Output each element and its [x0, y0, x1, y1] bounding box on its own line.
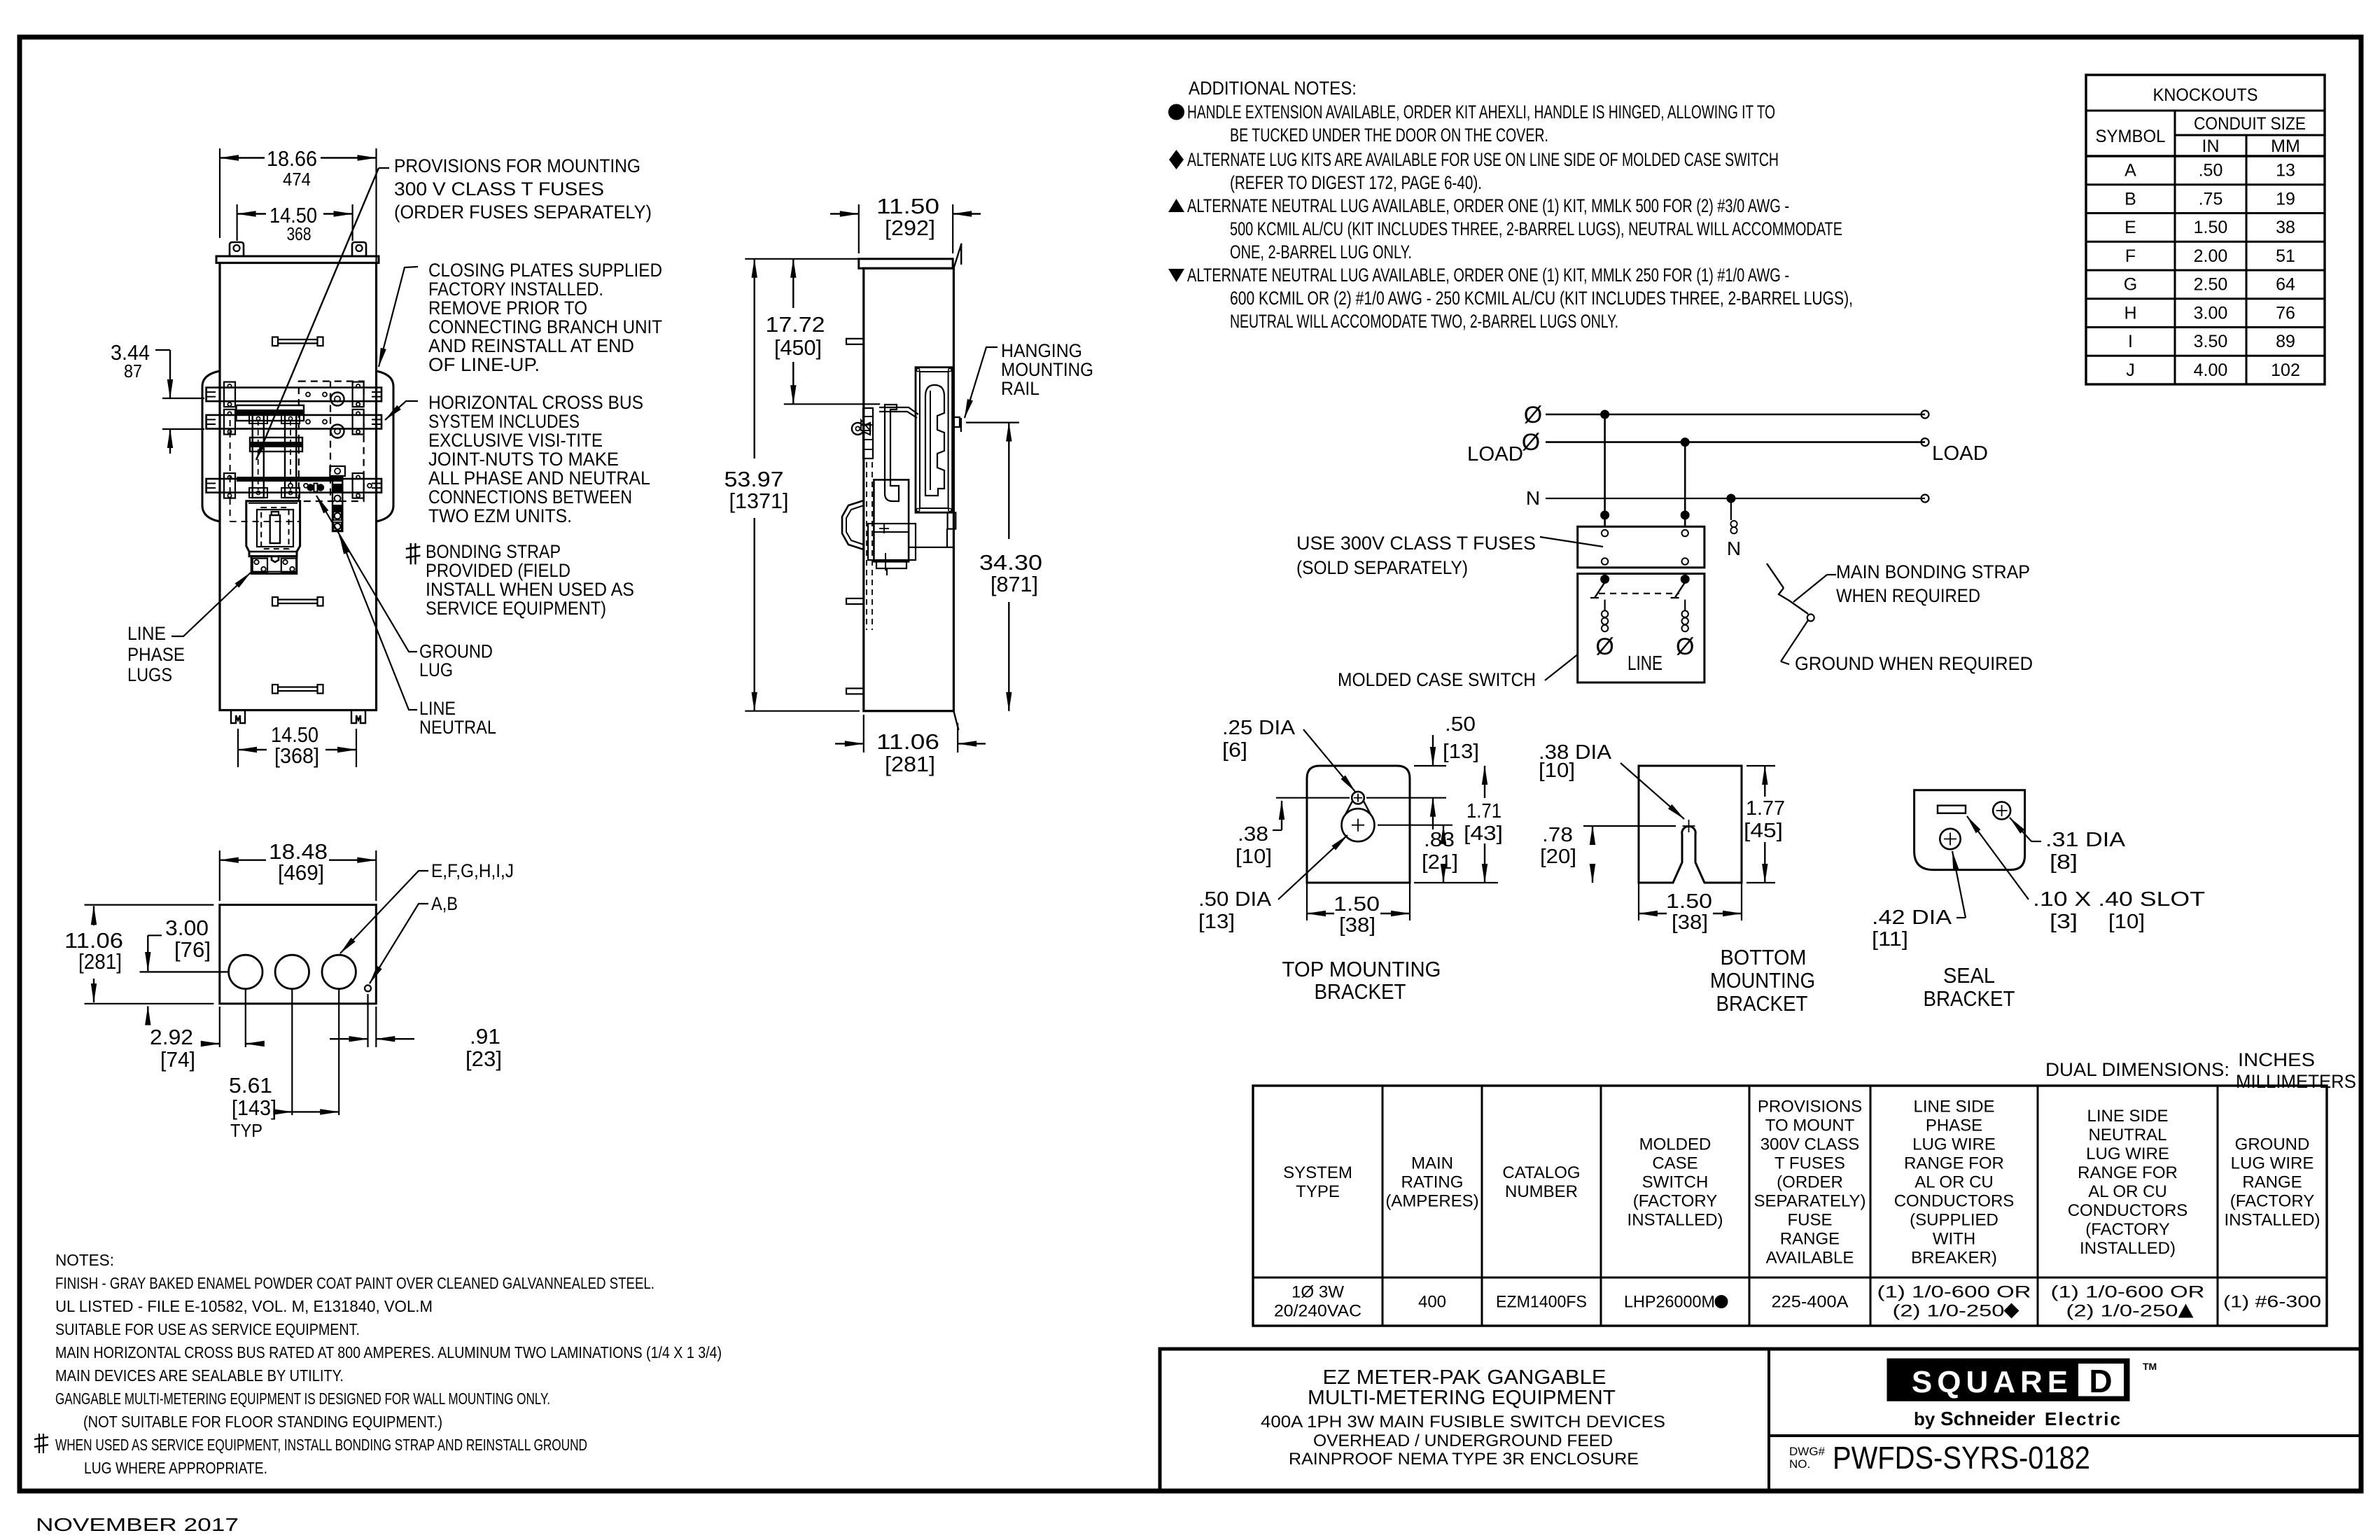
table header system type [1283, 1163, 1352, 1201]
table header main rating [1385, 1154, 1478, 1211]
svg-text:(REFER TO DIGEST 172, PAGE: (REFER TO DIGEST 172, PAGE 6-40). [1230, 172, 1482, 193]
dim 3.00 / [76] [140, 916, 230, 972]
svg-text:[38]: [38] [1672, 911, 1708, 934]
svg-text:HANDLE EXTENSION AVAILABLE,: HANDLE EXTENSION AVAILABLE, ORDER KIT AH… [1187, 101, 1775, 122]
svg-text:1.50: 1.50 [2194, 218, 2228, 237]
label load right [1932, 442, 1988, 465]
dim .91 / [23] [330, 994, 502, 1071]
svg-text:MAIN HORIZONTAL CROSS BUS: MAIN HORIZONTAL CROSS BUS RATED AT 800 A… [55, 1343, 722, 1361]
additional note alternate neutral lug 500 [1168, 195, 1842, 262]
svg-text:N: N [1526, 487, 1540, 509]
svg-text:LUGS: LUGS [127, 664, 172, 685]
additional notes heading [1189, 78, 1357, 99]
bottom view plate [220, 905, 377, 1004]
svg-text:CLOSING PLATES SUPPLIED: CLOSING PLATES SUPPLIED [428, 260, 662, 281]
svg-text:.50: .50 [2199, 161, 2223, 181]
svg-text:MULTI-METERING EQUIPMENT: MULTI-METERING EQUIPMENT [1308, 1387, 1616, 1409]
svg-text:(SOLD SEPARATELY): (SOLD SEPARATELY) [1296, 557, 1468, 578]
svg-text:.31 DIA: .31 DIA [2045, 829, 2126, 851]
svg-text:AL OR CU: AL OR CU [1914, 1173, 1993, 1192]
svg-text:B: B [2124, 189, 2136, 209]
svg-text:TWO EZM UNITS.: TWO EZM UNITS. [428, 505, 572, 526]
molded case switch front [246, 501, 300, 556]
svg-text:51: 51 [2276, 246, 2295, 266]
svg-text:11.06: 11.06 [876, 729, 939, 754]
label load left [1467, 443, 1523, 465]
seal bracket plate [1914, 790, 2025, 870]
svg-text:38: 38 [2276, 218, 2295, 237]
svg-text:(2) 1/0-250: (2) 1/0-250 [2066, 1302, 2178, 1321]
svg-text:2.50: 2.50 [2194, 275, 2228, 295]
svg-text:(ORDER FUSES SEPARATELY): (ORDER FUSES SEPARATELY) [394, 202, 652, 223]
upper bus connection plate [237, 405, 304, 421]
dim .25 DIA [6] [1222, 717, 1355, 792]
svg-text:(NOT SUITABLE FOR FLOOR ST: (NOT SUITABLE FOR FLOOR STANDING EQUIPME… [83, 1413, 442, 1431]
dim 11.06 / [281] side [835, 715, 986, 776]
svg-text:(FACTORY: (FACTORY [1633, 1192, 1717, 1211]
svg-text:LUG WHERE APPROPRIATE.: LUG WHERE APPROPRIATE. [84, 1459, 267, 1477]
dim 18.48 / [469] [220, 839, 377, 901]
top bracket keyhole [1342, 792, 1375, 841]
wire drop phase 2 [1681, 442, 1689, 527]
main table grid [1253, 1086, 2327, 1326]
table row system type [1274, 1283, 1361, 1321]
bottom view knockout E-J holes [229, 955, 356, 988]
top mounting bracket plate [1307, 766, 1410, 883]
svg-text:[43]: [43] [1464, 822, 1503, 845]
svg-text:CONNECTING BRANCH UNIT: CONNECTING BRANCH UNIT [428, 316, 662, 337]
side view dashed wire [867, 462, 872, 630]
svg-text:[1371]: [1371] [729, 489, 789, 513]
side view left hinge pins [846, 339, 864, 694]
svg-text:CONDUCTORS: CONDUCTORS [2068, 1201, 2188, 1220]
svg-text:(FACTORY: (FACTORY [2230, 1192, 2314, 1211]
callout line phase lugs [127, 573, 251, 685]
svg-text:CONNECTIONS BETWEEN: CONNECTIONS BETWEEN [428, 486, 632, 507]
dim .50 [13] top bracket [1366, 713, 1479, 829]
svg-text:18.66: 18.66 [267, 146, 317, 171]
svg-text:HANGING: HANGING [1001, 340, 1082, 361]
knockouts table text [2096, 85, 2306, 380]
seal bracket hole large [1940, 829, 1960, 849]
wire drop neutral stub [1727, 498, 1741, 559]
svg-text:[143]: [143] [232, 1095, 276, 1120]
svg-text:Ø: Ø [1676, 633, 1694, 660]
svg-text:I: I [2128, 332, 2133, 351]
svg-text:(SUPPLIED: (SUPPLIED [1910, 1211, 1998, 1230]
svg-text:PWFDS-SYRS-0182: PWFDS-SYRS-0182 [1833, 1440, 2090, 1476]
svg-text:TOP MOUNTING: TOP MOUNTING [1282, 957, 1441, 981]
bus right end plates [353, 382, 364, 498]
svg-text:GROUND: GROUND [2235, 1135, 2310, 1154]
callout closing plates [379, 260, 662, 375]
dim 34.30 / [871] [966, 423, 1042, 711]
dim 2.92 / [74] [148, 990, 259, 1072]
svg-text:.50 DIA: .50 DIA [1198, 888, 1272, 911]
by schneider electric [1914, 1408, 2122, 1429]
svg-text:TO MOUNT: TO MOUNT [1765, 1116, 1855, 1135]
svg-text:.78: .78 [1542, 824, 1573, 846]
svg-text:3.00: 3.00 [2194, 303, 2228, 323]
svg-text:F: F [2125, 246, 2136, 266]
svg-text:1.77: 1.77 [1746, 797, 1785, 820]
line neutral lug [304, 481, 326, 494]
svg-text:Ø: Ø [1595, 633, 1613, 660]
dim .38 DIA [10] bottom bracket [1539, 741, 1684, 819]
switch poles [1590, 582, 1694, 675]
svg-text:FINISH - GRAY BAKED ENAMEL: FINISH - GRAY BAKED ENAMEL POWDER COAT P… [55, 1274, 654, 1292]
callout line neutral [339, 535, 496, 738]
svg-text:[368]: [368] [274, 743, 319, 768]
svg-text:ALTERNATE NEUTRAL LUG AVAIL: ALTERNATE NEUTRAL LUG AVAILABLE, ORDER O… [1187, 195, 1789, 216]
svg-text:CONDUCTORS: CONDUCTORS [1894, 1192, 2015, 1211]
main bus heavy segment upper [237, 409, 304, 415]
svg-text:[469]: [469] [278, 860, 324, 885]
svg-text:NOVEMBER 2017: NOVEMBER 2017 [36, 1514, 239, 1535]
side view switch mechanism [868, 479, 916, 570]
svg-text:[13]: [13] [1198, 911, 1235, 933]
svg-text:CASE: CASE [1652, 1154, 1697, 1173]
svg-text:[10]: [10] [1539, 759, 1575, 782]
front view right gang flange [377, 371, 394, 521]
dim 17.72 / [450] [766, 259, 881, 405]
svg-text:RATING: RATING [1401, 1173, 1464, 1192]
svg-text:MAIN DEVICES ARE SEALABLE: MAIN DEVICES ARE SEALABLE BY UTILITY. [55, 1366, 344, 1385]
svg-text:368: 368 [287, 223, 311, 244]
svg-text:EZ METER-PAK GANGABLE: EZ METER-PAK GANGABLE [1323, 1366, 1606, 1389]
svg-text:300V CLASS: 300V CLASS [1760, 1135, 1859, 1154]
dim 1.71 [43] [1414, 766, 1503, 883]
dim .31 DIA [8] [2010, 818, 2126, 874]
svg-text:3.50: 3.50 [2194, 332, 2228, 351]
svg-text:SERVICE EQUIPMENT): SERVICE EQUIPMENT) [426, 598, 606, 619]
side view door clamp loop [852, 423, 870, 435]
dim .42 DIA [11] [1872, 851, 1966, 951]
svg-text:TYPE: TYPE [1296, 1182, 1340, 1201]
svg-text:SYMBOL: SYMBOL [2096, 127, 2166, 146]
svg-text:1.71: 1.71 [1466, 800, 1501, 822]
svg-text:INSTALL WHEN USED AS: INSTALL WHEN USED AS [426, 579, 634, 600]
dim 1.50 [38] bottom bracket [1639, 883, 1742, 934]
wire drop phase 1 [1601, 414, 1609, 526]
table header provisions fuses [1753, 1098, 1865, 1268]
svg-text:FACTORY INSTALLED.: FACTORY INSTALLED. [428, 279, 603, 300]
svg-text:[6]: [6] [1222, 739, 1247, 762]
side view rail lip [953, 417, 960, 427]
svg-text:3.00: 3.00 [165, 916, 209, 940]
svg-text:.83: .83 [1424, 829, 1455, 851]
svg-text:PHASE: PHASE [1926, 1116, 1982, 1135]
svg-text:JOINT-NUTS TO MAKE: JOINT-NUTS TO MAKE [428, 449, 619, 470]
svg-text:76: 76 [2276, 303, 2295, 323]
dim 53.97 / [1371] [724, 259, 860, 711]
svg-text:Electric: Electric [2045, 1408, 2122, 1429]
table row catalog number [1496, 1293, 1587, 1312]
dim 1.77 [45] [1744, 766, 1785, 883]
svg-text:PHASE: PHASE [127, 644, 185, 665]
svg-text:102: 102 [2271, 360, 2300, 380]
svg-text:.42 DIA: .42 DIA [1872, 906, 1952, 929]
svg-text:89: 89 [2276, 332, 2295, 351]
svg-text:11.50: 11.50 [876, 194, 939, 218]
svg-text:[281]: [281] [78, 949, 122, 974]
dwg number [1789, 1440, 2090, 1476]
svg-text:ALTERNATE LUG KITS ARE AVA: ALTERNATE LUG KITS ARE AVAILABLE FOR USE… [1187, 149, 1779, 170]
additional note alternate neutral lug 250 [1168, 265, 1853, 332]
dim .38 [10] top bracket [1235, 798, 1350, 868]
side view hinge block [861, 408, 873, 458]
svg-text:SEPARATELY): SEPARATELY) [1753, 1192, 1865, 1211]
svg-text:[281]: [281] [885, 752, 935, 776]
svg-text:by: by [1914, 1408, 1935, 1429]
svg-text:13: 13 [2276, 161, 2295, 181]
label main bonding strap [1793, 561, 2030, 606]
svg-text:E,F,G,H,I,J: E,F,G,H,I,J [431, 860, 514, 881]
svg-text:.25 DIA: .25 DIA [1222, 717, 1296, 739]
svg-text:Ø: Ø [1524, 402, 1542, 428]
caption top mounting bracket [1282, 957, 1441, 1004]
svg-text:SYSTEM INCLUDES: SYSTEM INCLUDES [428, 411, 580, 432]
svg-text:SQUARE: SQUARE [1912, 1365, 2073, 1399]
callout ground lug [316, 496, 493, 680]
svg-text:[3]: [3] [2050, 911, 2078, 933]
callout bonding strap [426, 541, 634, 619]
svg-text:OVERHEAD / UNDERGROUND FEED: OVERHEAD / UNDERGROUND FEED [1313, 1431, 1613, 1450]
svg-text:PROVIDED (FIELD: PROVIDED (FIELD [426, 560, 570, 581]
svg-text:LUG WIRE: LUG WIRE [2086, 1144, 2169, 1163]
bus riser straps [249, 412, 300, 498]
wire neutral [1526, 487, 1929, 509]
door handle bar 1 [272, 337, 323, 346]
title block frame [1160, 1349, 2361, 1491]
dim 1.50 [38] top bracket [1307, 883, 1410, 937]
svg-text:474: 474 [283, 169, 311, 190]
svg-text:BRACKET: BRACKET [1716, 991, 1808, 1016]
svg-text:AL OR CU: AL OR CU [2088, 1182, 2166, 1201]
square d logo [1888, 1359, 2157, 1400]
svg-text:MOUNTING: MOUNTING [1001, 359, 1093, 380]
callout hanging mounting rail [965, 340, 1093, 418]
svg-text:[871]: [871] [990, 572, 1038, 596]
lower bus connection plate [250, 437, 302, 451]
svg-text:(2) 1/0-250: (2) 1/0-250 [1893, 1302, 2005, 1321]
notes block [55, 1251, 722, 1477]
door handle bar 2 [272, 597, 323, 606]
svg-text:RANGE FOR: RANGE FOR [1904, 1154, 2004, 1173]
svg-text:GANGABLE MULTI-METERING EQUI: GANGABLE MULTI-METERING EQUIPMENT IS DES… [55, 1389, 550, 1408]
side view hanging rail box [916, 367, 953, 513]
svg-text:TM: TM [2143, 1361, 2157, 1372]
visi-tite joint nuts [331, 393, 344, 438]
svg-text:PROVISIONS FOR MOUNTING: PROVISIONS FOR MOUNTING [394, 155, 640, 176]
svg-text:UL LISTED - FILE E-10582,: UL LISTED - FILE E-10582, VOL. M, E13184… [55, 1297, 433, 1315]
table row fuse range [1772, 1293, 1849, 1312]
side view lower bracket [876, 528, 953, 575]
svg-text:17.72: 17.72 [766, 312, 825, 337]
svg-text:NEUTRAL: NEUTRAL [419, 717, 496, 738]
svg-text:WHEN REQUIRED: WHEN REQUIRED [1836, 585, 1980, 606]
svg-text:2.92: 2.92 [150, 1025, 193, 1049]
dim .83 [21] [1378, 825, 1458, 883]
svg-text:ADDITIONAL NOTES:: ADDITIONAL NOTES: [1189, 78, 1357, 99]
svg-text:(AMPERES): (AMPERES) [1385, 1192, 1478, 1211]
dim 11.50 / [292] [830, 194, 981, 253]
svg-text:CONDUIT SIZE: CONDUIT SIZE [2194, 114, 2306, 134]
dim 11.06 / [281] bottom view [64, 905, 213, 1004]
svg-text:MAIN: MAIN [1411, 1154, 1453, 1173]
svg-text:A: A [2124, 161, 2136, 181]
main bonding strap symbol [1767, 563, 1814, 621]
svg-text:.10 X .40 SLOT: .10 X .40 SLOT [2033, 888, 2205, 911]
svg-text:300 V CLASS T FUSES: 300 V CLASS T FUSES [394, 178, 604, 199]
svg-text:[292]: [292] [885, 216, 935, 240]
bus left end plates [224, 382, 235, 498]
side view interlock wire [879, 407, 918, 418]
bottom mounting bracket plate [1639, 766, 1742, 883]
svg-text:LUG WIRE: LUG WIRE [2231, 1154, 2314, 1173]
callout provisions for mounting fuses [256, 155, 652, 460]
svg-text:NEUTRAL WILL ACCOMODATE TWO: NEUTRAL WILL ACCOMODATE TWO, 2-BARREL LU… [1230, 311, 1618, 332]
svg-text:ALL PHASE AND NEUTRAL: ALL PHASE AND NEUTRAL [428, 468, 650, 489]
svg-text:600 KCMIL OR (2) #1/0 AWG: 600 KCMIL OR (2) #1/0 AWG - 250 KCMIL AL… [1230, 288, 1853, 309]
knockouts table grid [2086, 75, 2325, 384]
label molded case switch [1338, 654, 1578, 690]
svg-text:MAIN BONDING STRAP: MAIN BONDING STRAP [1836, 561, 2030, 582]
svg-text:.38: .38 [1238, 823, 1268, 846]
svg-text:[11]: [11] [1872, 928, 1908, 951]
svg-text:AVAILABLE: AVAILABLE [1766, 1249, 1854, 1268]
side view operating handle [842, 500, 864, 549]
svg-text:LINE: LINE [127, 623, 166, 644]
svg-text:LHP26000M: LHP26000M [1624, 1293, 1715, 1312]
svg-text:INCHES: INCHES [2238, 1049, 2315, 1070]
svg-text:BRACKET: BRACKET [1315, 979, 1406, 1004]
svg-text:AND REINSTALL AT END: AND REINSTALL AT END [428, 335, 634, 356]
svg-text:REMOVE PRIOR TO: REMOVE PRIOR TO [428, 297, 587, 318]
svg-text:E: E [2124, 218, 2136, 237]
line phase lug block [251, 556, 297, 574]
side view door edge ticks [953, 244, 961, 730]
svg-text:.91: .91 [470, 1024, 500, 1049]
svg-text:.75: .75 [2199, 189, 2223, 209]
caption seal bracket [1924, 963, 2015, 1011]
door handle bar 3 [272, 685, 323, 694]
dual dimensions note [2045, 1049, 2356, 1092]
bonding strap note symbol [406, 543, 421, 564]
label ground when required [1781, 620, 2033, 674]
dim 18.66 / 474 [220, 146, 377, 367]
front view left gang flange [202, 371, 220, 521]
svg-text:4.00: 4.00 [2194, 360, 2228, 380]
svg-text:WITH: WITH [1933, 1230, 1975, 1249]
label E,F,G,H,I,J [340, 860, 514, 953]
side view enclosure body [859, 259, 954, 711]
svg-text:BREAKER): BREAKER) [1911, 1249, 1997, 1268]
svg-text:USE 300V CLASS T FUSES: USE 300V CLASS T FUSES [1296, 533, 1536, 554]
caption bottom mounting bracket [1710, 945, 1815, 1016]
visi-tite dashed cover rectangle [299, 381, 364, 501]
side view right block [948, 512, 956, 528]
svg-text:(ORDER: (ORDER [1777, 1173, 1843, 1192]
svg-text:LINE: LINE [1627, 652, 1662, 675]
callout horizontal cross bus [385, 392, 650, 526]
svg-text:NUMBER: NUMBER [1505, 1182, 1578, 1201]
footer date NOVEMBER 2017 [36, 1514, 239, 1535]
svg-text:INSTALLED): INSTALLED) [1627, 1211, 1723, 1230]
svg-text:T FUSES: T FUSES [1774, 1154, 1845, 1173]
svg-text:[8]: [8] [2050, 851, 2078, 874]
svg-text:N: N [1727, 538, 1741, 559]
svg-text:500 KCMIL AL/CU (KIT INCLU: 500 KCMIL AL/CU (KIT INCLUDES THREE, 2-B… [1230, 218, 1842, 239]
dim .78 [20] [1540, 824, 1676, 883]
svg-text:G: G [2124, 275, 2137, 295]
dim .10 X .40 SLOT [1967, 816, 2205, 933]
svg-text:[20]: [20] [1540, 846, 1576, 868]
svg-text:KNOCKOUTS: KNOCKOUTS [2153, 85, 2258, 105]
wire phase 1 [1524, 402, 1929, 428]
table row neutral lug range [2051, 1283, 2205, 1321]
seal bracket hole small [1993, 802, 2010, 820]
svg-text:Schneider: Schneider [1940, 1408, 2035, 1429]
svg-text:RANGE FOR: RANGE FOR [2078, 1163, 2178, 1182]
svg-text:[10]: [10] [2108, 911, 2145, 933]
svg-text:(1) #6-300: (1) #6-300 [2223, 1293, 2321, 1312]
table header line side neutral [2068, 1107, 2188, 1258]
svg-text:(1) 1/0-600 OR: (1) 1/0-600 OR [1877, 1283, 2031, 1302]
svg-text:INSTALLED): INSTALLED) [2080, 1239, 2176, 1258]
svg-text:INSTALLED): INSTALLED) [2225, 1211, 2320, 1230]
notes bonding strap symbol [34, 1434, 48, 1453]
svg-text:[38]: [38] [1339, 914, 1375, 937]
meter socket dashed outline [230, 420, 299, 521]
cross bus bar neutral [206, 479, 381, 493]
svg-text:225-400A: 225-400A [1772, 1293, 1849, 1312]
fuse block [1578, 526, 1704, 568]
svg-text:MOLDED: MOLDED [1639, 1135, 1711, 1154]
bus hardware screws [288, 393, 372, 488]
svg-text:1.50: 1.50 [1333, 893, 1380, 916]
svg-text:LOAD: LOAD [1932, 442, 1988, 465]
svg-text:ONE, 2-BARREL LUG ONLY.: ONE, 2-BARREL LUG ONLY. [1230, 241, 1412, 262]
svg-text:GROUND: GROUND [419, 641, 493, 662]
main bus heavy segment lower [250, 442, 302, 447]
front view enclosure body [216, 256, 379, 710]
svg-text:MILLIMETERS: MILLIMETERS [2236, 1071, 2356, 1092]
svg-text:BRACKET: BRACKET [1924, 986, 2015, 1011]
dim 14.50 / [368] bottom [238, 722, 356, 768]
dim 5.61 / [143] TYP [229, 990, 339, 1141]
svg-text:(FACTORY: (FACTORY [2085, 1220, 2169, 1239]
svg-text:64: 64 [2276, 275, 2295, 295]
svg-text:1.50: 1.50 [1666, 890, 1712, 913]
svg-text:RAIL: RAIL [1001, 378, 1039, 399]
svg-text:53.97: 53.97 [724, 467, 784, 491]
svg-text:MOLDED CASE SWITCH: MOLDED CASE SWITCH [1338, 669, 1536, 690]
svg-text:2.00: 2.00 [2194, 246, 2228, 266]
additional note handle extension [1169, 101, 1775, 146]
label A,B [370, 893, 458, 983]
svg-text:EZM1400FS: EZM1400FS [1496, 1293, 1587, 1312]
svg-text:MOUNTING: MOUNTING [1710, 968, 1815, 993]
svg-text:LINE SIDE: LINE SIDE [2087, 1107, 2168, 1126]
svg-text:[23]: [23] [465, 1046, 502, 1071]
svg-text:[13]: [13] [1443, 741, 1479, 763]
side view door interlock channel [885, 405, 899, 501]
table row phase lug range [1877, 1283, 2031, 1321]
svg-text:SWITCH: SWITCH [1642, 1173, 1709, 1192]
svg-text:RAINPROOF NEMA TYPE 3R ENC: RAINPROOF NEMA TYPE 3R ENCLOSURE [1289, 1450, 1639, 1469]
table row main rating [1418, 1293, 1446, 1312]
